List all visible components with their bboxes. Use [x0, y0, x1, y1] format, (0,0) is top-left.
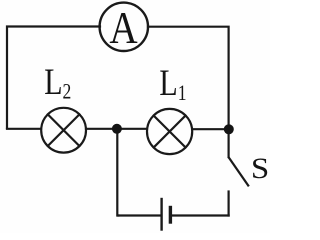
- switch S bottom contact lead: [228, 192, 230, 216]
- wire L1 to node B: [192, 128, 229, 130]
- svg-text:L1: L1: [159, 63, 186, 106]
- wire node A down to bottom wire: [117, 129, 118, 216]
- wire top-right: ammeter to right junction: [148, 27, 229, 126]
- svg-text:S: S: [251, 152, 269, 185]
- label S (switch): [251, 152, 269, 185]
- battery BT1 short plate: [169, 208, 172, 223]
- label L1: [159, 63, 186, 106]
- node B junction dot: [224, 124, 234, 134]
- wire L2 to node A: [86, 128, 117, 130]
- lamp L1 cross: [154, 116, 186, 148]
- wire bottom-left: battery to left riser: [118, 214, 160, 216]
- wire node A to lamp L1: [117, 128, 147, 130]
- wire node B down to switch pivot: [228, 129, 230, 157]
- svg-text:L2: L2: [44, 62, 71, 104]
- battery BT1 long plate: [160, 199, 162, 230]
- label L2: [44, 62, 71, 104]
- lamp L2 cross: [48, 114, 80, 146]
- label A (ammeter): [109, 3, 138, 53]
- wire top-left: left corner to ammeter: [7, 27, 100, 129]
- wire bottom-right: switch to battery: [171, 214, 229, 216]
- node A junction dot: [112, 124, 122, 134]
- ammeter U1 circle: [100, 3, 148, 51]
- lamp L2 circle: [41, 108, 86, 153]
- wire middle-left: left corner to lamp L2: [7, 128, 41, 130]
- switch S blade (open): [229, 158, 248, 186]
- svg-text:A: A: [109, 3, 138, 53]
- lamp L1 circle: [147, 109, 192, 154]
